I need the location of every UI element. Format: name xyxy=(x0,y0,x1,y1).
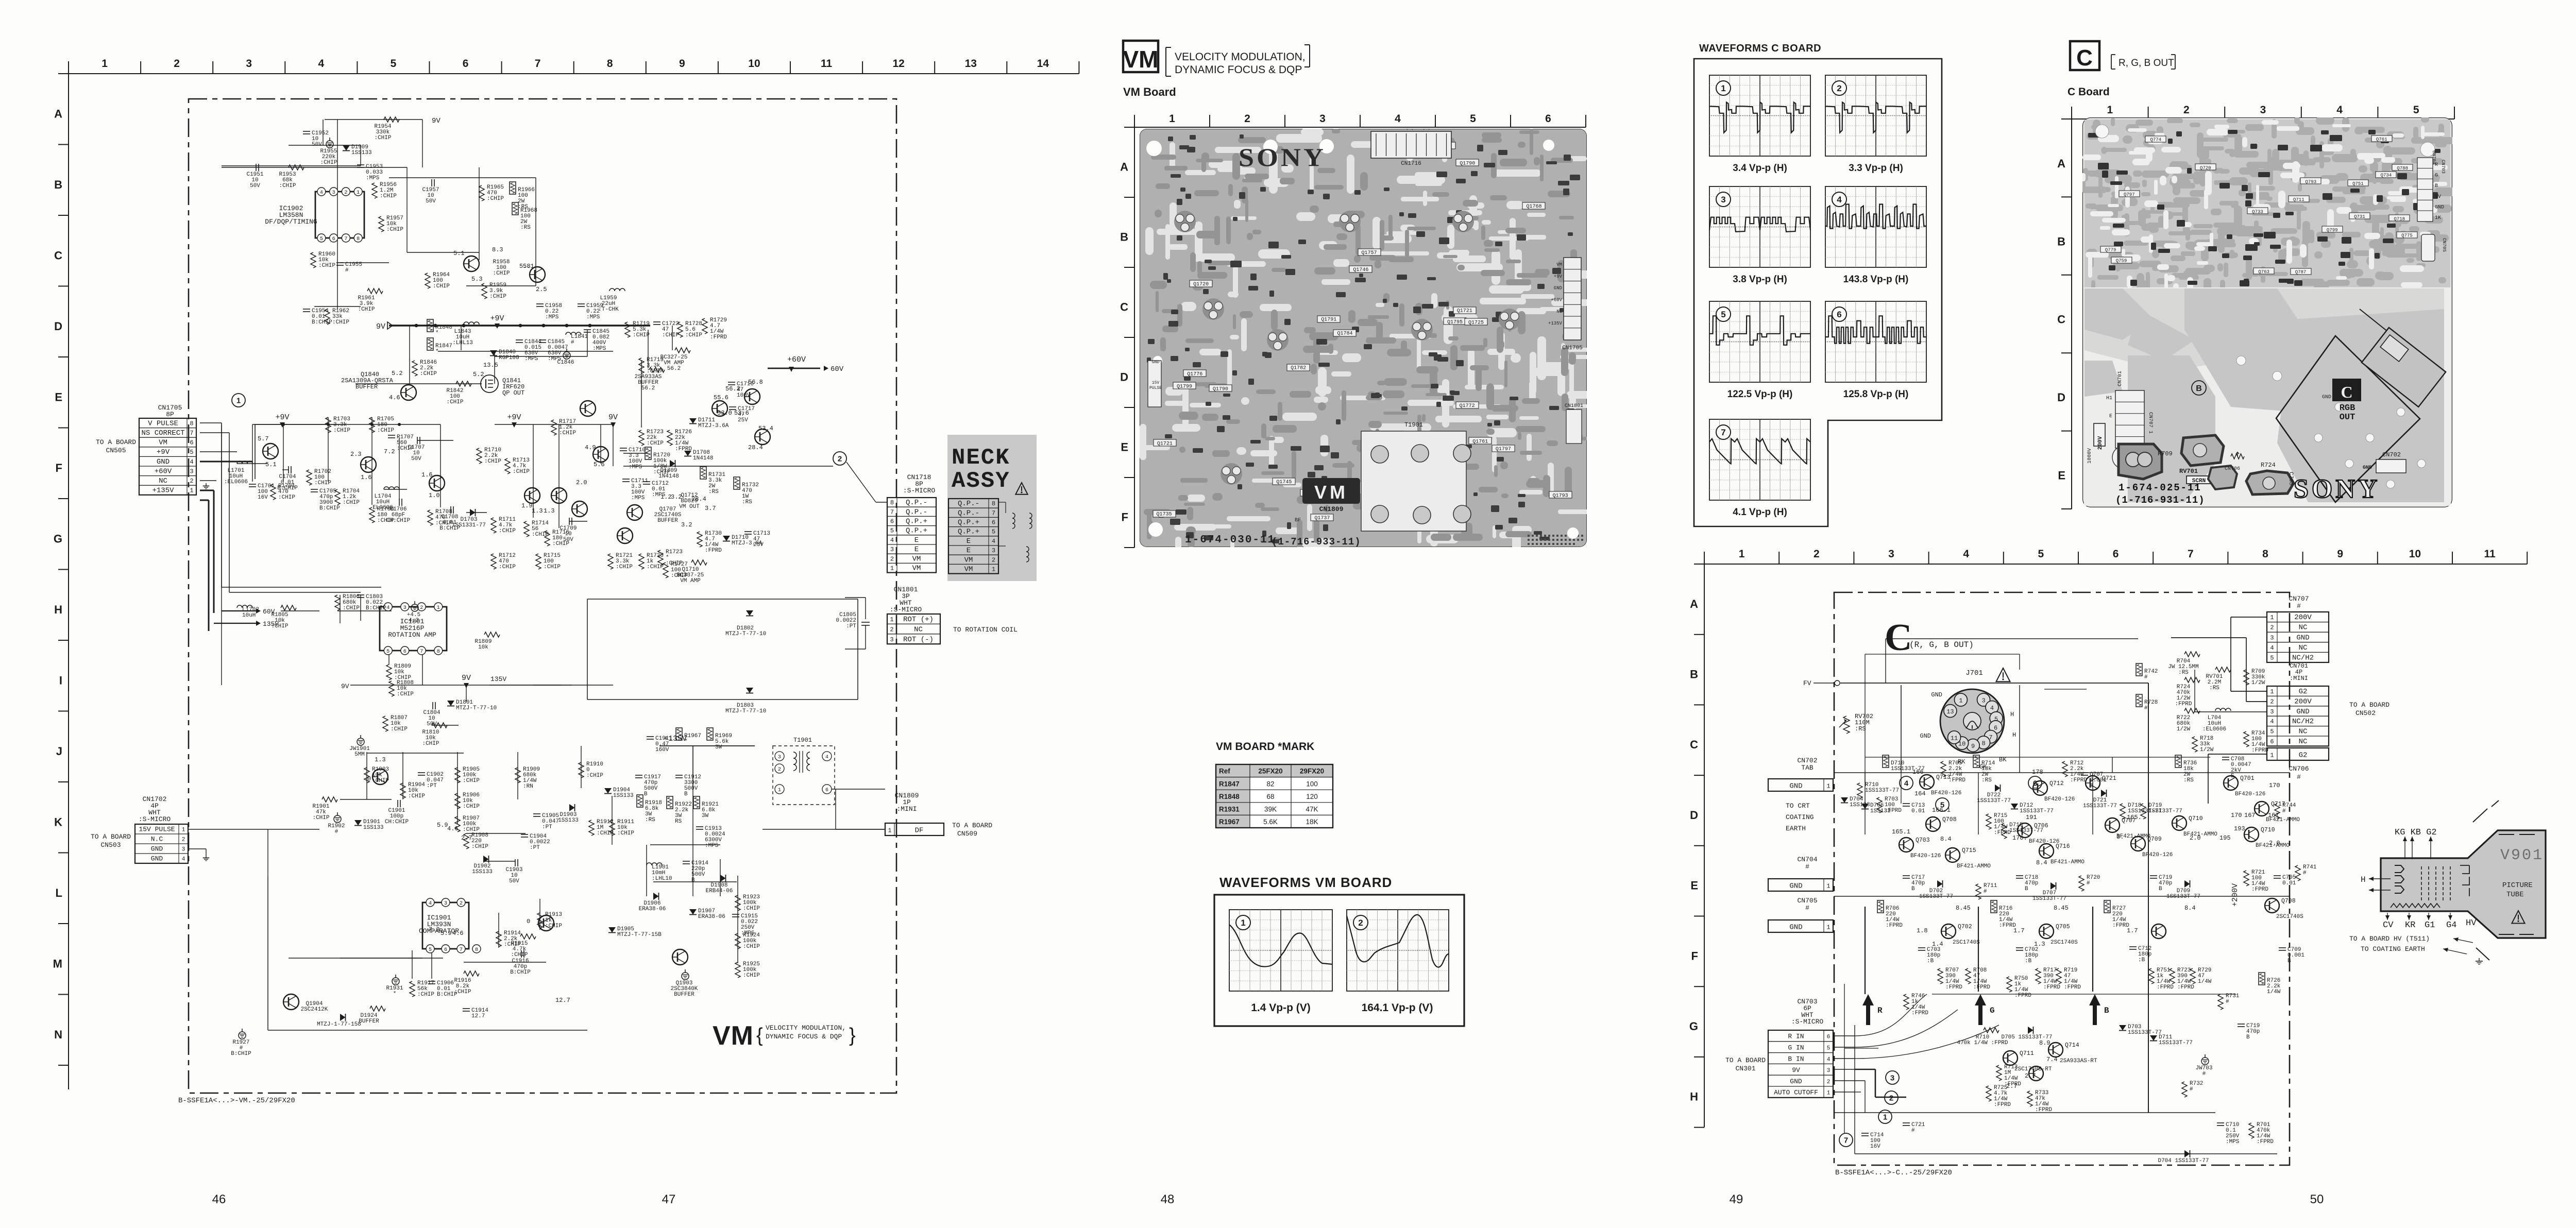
svg-text:191: 191 xyxy=(2026,814,2037,821)
svg-text:9: 9 xyxy=(1971,743,1975,750)
svg-text:170: 170 xyxy=(2231,812,2242,819)
diode D1905 xyxy=(608,927,616,933)
diode D1803 xyxy=(746,688,753,693)
resistor R704 xyxy=(2184,652,2200,657)
wire xyxy=(1704,564,1705,1128)
svg-text:B: B xyxy=(2196,384,2202,393)
wire xyxy=(457,752,458,824)
svg-text:5MM: 5MM xyxy=(354,752,365,758)
svg-text:12.7: 12.7 xyxy=(471,1013,485,1019)
svg-text:H: H xyxy=(2012,731,2016,739)
svg-text:F: F xyxy=(1691,949,1698,962)
svg-text:4.6: 4.6 xyxy=(452,930,464,937)
svg-text:HV: HV xyxy=(2466,918,2477,928)
svg-text::CHIP: :CHIP xyxy=(489,294,506,300)
resistor R1847 xyxy=(427,338,433,350)
svg-text:R IN: R IN xyxy=(1788,1033,1804,1041)
diode D1906 xyxy=(653,893,659,900)
svg-text:8.3: 8.3 xyxy=(492,246,503,253)
svg-text:Q710: Q710 xyxy=(2261,827,2275,833)
svg-text::CHIP: :CHIP xyxy=(408,793,425,799)
svg-text:0.01: 0.01 xyxy=(2282,880,2296,886)
svg-text:4: 4 xyxy=(386,605,389,611)
svg-text:TO A BOARD: TO A BOARD xyxy=(91,833,131,841)
diode D1904 xyxy=(604,788,612,794)
resistor R1923 xyxy=(735,895,740,911)
svg-text:#: # xyxy=(2297,602,2301,610)
svg-text:Q710: Q710 xyxy=(2189,815,2203,822)
svg-text:6: 6 xyxy=(2113,548,2119,560)
svg-text:E: E xyxy=(1690,879,1698,892)
capacitor C719 xyxy=(2150,875,2157,876)
svg-text:13: 13 xyxy=(1946,708,1954,715)
wire xyxy=(422,120,423,167)
svg-text:BUFFER: BUFFER xyxy=(359,1018,379,1025)
resistor R1808 xyxy=(389,681,394,696)
svg-text:11: 11 xyxy=(1951,735,1958,742)
capacitor C1955 xyxy=(336,262,344,263)
svg-text::EL0606: :EL0606 xyxy=(224,479,248,485)
resistor R729 xyxy=(2190,968,2195,984)
svg-text:VM: VM xyxy=(1314,482,1348,503)
svg-text:+60V: +60V xyxy=(155,467,172,475)
RV702 pot xyxy=(1843,716,1850,734)
svg-text:C: C xyxy=(2076,45,2093,71)
oscilloscope graticule xyxy=(1709,75,1810,156)
svg-text:1: 1 xyxy=(2270,688,2274,695)
svg-text::FPRD: :FPRD xyxy=(2251,886,2268,893)
svg-text:A: A xyxy=(1120,160,1128,173)
svg-text:1/4W: 1/4W xyxy=(2198,979,2212,985)
resistor R1720 xyxy=(645,447,651,459)
svg-text:3.2: 3.2 xyxy=(681,521,692,528)
svg-text:1.0: 1.0 xyxy=(429,492,440,499)
resistor R751 xyxy=(2149,968,2154,984)
svg-text::MINI: :MINI xyxy=(896,805,917,813)
svg-text:8P: 8P xyxy=(166,411,174,418)
wire xyxy=(466,285,536,286)
svg-text:8: 8 xyxy=(607,58,613,70)
svg-text:G2: G2 xyxy=(2299,751,2308,759)
resistor R705 xyxy=(1941,761,1946,777)
svg-text:1SS133: 1SS133 xyxy=(472,869,493,875)
wire +9V D bus xyxy=(389,325,650,326)
resistor R1967 xyxy=(676,728,682,740)
svg-text:178: 178 xyxy=(2032,769,2043,776)
resistor R1702 xyxy=(307,470,312,485)
svg-text:8: 8 xyxy=(190,420,193,427)
svg-text:Q787: Q787 xyxy=(2295,270,2307,275)
svg-text:7: 7 xyxy=(420,649,423,655)
svg-text::PT: :PT xyxy=(530,845,540,851)
svg-text:GND: GND xyxy=(1920,732,1931,740)
wire xyxy=(498,913,499,948)
svg-text::B: :B xyxy=(2025,958,2032,964)
svg-text:5.6K: 5.6K xyxy=(1263,818,1278,826)
wire xyxy=(237,463,268,464)
svg-text:1: 1 xyxy=(890,565,894,572)
svg-text::FPRD: :FPRD xyxy=(1948,777,1965,783)
capacitor C710 xyxy=(2217,1122,2224,1123)
diode MTZJ-1-77-158 xyxy=(340,1014,346,1021)
resistor R1904 xyxy=(400,783,405,798)
wire xyxy=(323,120,324,145)
resistor R1711 xyxy=(491,518,496,533)
svg-text:Q1721: Q1721 xyxy=(1457,309,1472,314)
resistor R1731 xyxy=(700,467,706,479)
svg-text:NC: NC xyxy=(2299,728,2308,736)
svg-text:166: 166 xyxy=(1912,769,1924,776)
svg-text::MPS: :MPS xyxy=(631,495,645,501)
svg-text::CHIP: :CHIP xyxy=(471,844,488,850)
svg-text:KR: KR xyxy=(2405,920,2415,930)
svg-text:TO A BOARD: TO A BOARD xyxy=(952,822,992,829)
svg-text:GND: GND xyxy=(151,855,163,863)
resistor R1953 xyxy=(289,165,304,170)
svg-text:MTZJ-1-77-158: MTZJ-1-77-158 xyxy=(317,1021,361,1028)
resistor D715 xyxy=(2002,823,2007,839)
svg-text::CHIP: :CHIP xyxy=(616,564,633,570)
svg-text:VM AMP: VM AMP xyxy=(680,578,701,584)
svg-text:D704 1SS133T-77: D704 1SS133T-77 xyxy=(2158,1158,2209,1164)
resistor R1705 xyxy=(369,417,375,433)
svg-text:B: B xyxy=(2057,235,2065,248)
svg-text:R, G, B OUT: R, G, B OUT xyxy=(2119,58,2174,69)
svg-text:1K: 1K xyxy=(2435,215,2441,221)
svg-text:GND: GND xyxy=(1790,1078,1802,1085)
svg-text:NC: NC xyxy=(159,477,167,485)
resistor R710 xyxy=(1857,783,1862,798)
svg-text:F: F xyxy=(56,462,62,474)
resistor Q1710 xyxy=(691,560,707,565)
ground C1846 xyxy=(566,349,567,352)
svg-text:1SS133T-77: 1SS133T-77 xyxy=(2083,803,2117,809)
svg-text:18K: 18K xyxy=(1306,818,1318,826)
wire xyxy=(762,829,885,830)
svg-text::CHIP: :CHIP xyxy=(743,973,760,979)
svg-text:B:CHIP: B:CHIP xyxy=(277,485,298,491)
capacitor C721 xyxy=(1903,1122,1910,1123)
diode D712 xyxy=(2011,804,2018,809)
callout circles xyxy=(1886,1071,1899,1084)
oscilloscope graticule xyxy=(1825,186,1926,267)
wire xyxy=(483,861,515,862)
svg-text:ASSY: ASSY xyxy=(952,468,1010,494)
svg-text:NC: NC xyxy=(2299,644,2308,652)
svg-text:BF420-126: BF420-126 xyxy=(1910,853,1941,859)
capacitor C712 xyxy=(2129,946,2137,947)
transistor Q707 xyxy=(2105,818,2120,832)
wire xyxy=(337,120,338,309)
svg-text:50V: 50V xyxy=(312,142,322,148)
wire xyxy=(494,350,495,384)
svg-text:50V: 50V xyxy=(509,878,519,884)
svg-text:3: 3 xyxy=(246,58,252,70)
resistor R1842 xyxy=(456,381,471,386)
svg-text:1SS133T-77: 1SS133T-77 xyxy=(1977,798,2011,804)
svg-text:8.4: 8.4 xyxy=(2036,859,2047,866)
ground xyxy=(206,855,207,858)
svg-text:1: 1 xyxy=(1826,924,1830,931)
svg-text:6: 6 xyxy=(444,947,447,953)
svg-text:PICTURE: PICTURE xyxy=(2502,881,2533,890)
svg-text:Q703: Q703 xyxy=(1916,837,1930,844)
svg-text:VM: VM xyxy=(713,1021,754,1051)
svg-text:MTZJ-T-77-10: MTZJ-T-77-10 xyxy=(725,708,766,714)
svg-text:Q720: Q720 xyxy=(2200,165,2211,170)
svg-text:#: # xyxy=(1805,904,1809,912)
svg-text:Q793: Q793 xyxy=(2306,179,2317,184)
svg-text:2.0: 2.0 xyxy=(2269,840,2280,847)
svg-text:Q705: Q705 xyxy=(2056,924,2070,930)
svg-text:WAVEFORMS C BOARD: WAVEFORMS C BOARD xyxy=(1699,43,1821,54)
svg-text:RV701: RV701 xyxy=(2179,468,2198,475)
resistor R1903 xyxy=(364,767,369,783)
svg-text:DF/DQP/TIMING: DF/DQP/TIMING xyxy=(265,218,317,226)
svg-text:1: 1 xyxy=(437,605,440,611)
svg-text:28.4: 28.4 xyxy=(748,444,763,451)
svg-text:3: 3 xyxy=(444,901,447,907)
wire xyxy=(464,962,546,963)
VM BOARD *MARK table xyxy=(1216,764,1333,828)
resistor R1810 xyxy=(432,723,447,728)
diode D704 xyxy=(1841,797,1848,803)
wire xyxy=(399,438,400,500)
svg-text:10: 10 xyxy=(2409,548,2421,560)
svg-text:1.2: 1.2 xyxy=(660,493,672,501)
transistor Q1840 xyxy=(401,385,416,400)
svg-text::CHIP: :CHIP xyxy=(662,332,679,338)
svg-text:CN702: CN702 xyxy=(1797,757,1817,764)
svg-text:4: 4 xyxy=(1827,1056,1831,1063)
svg-text:ERB44-06: ERB44-06 xyxy=(706,888,733,894)
capacitor C1712 xyxy=(643,481,650,482)
resistor R1911 xyxy=(609,820,615,835)
svg-text:3.2: 3.2 xyxy=(671,493,682,501)
svg-text:B: B xyxy=(2159,886,2162,892)
svg-text:6: 6 xyxy=(1827,1034,1831,1041)
svg-text::FPRD: :FPRD xyxy=(1911,1010,1928,1016)
svg-text::CHIP: :CHIP xyxy=(417,992,434,998)
svg-text:8: 8 xyxy=(992,500,995,507)
svg-text::CHIP: :CHIP xyxy=(386,227,403,233)
svg-text::CHIP: :CHIP xyxy=(487,196,504,202)
svg-text:CN704: CN704 xyxy=(1797,856,1817,863)
svg-text::RS: :RS xyxy=(1855,725,1866,732)
svg-text:CN702: CN702 xyxy=(2382,451,2401,458)
svg-text:(R, G, B OUT): (R, G, B OUT) xyxy=(1909,640,1974,650)
wire xyxy=(384,489,407,490)
svg-text:Q1761: Q1761 xyxy=(1472,439,1488,445)
svg-text:B: B xyxy=(2104,1006,2109,1015)
svg-text:VM: VM xyxy=(912,555,921,563)
svg-text:4: 4 xyxy=(2336,104,2343,116)
resistor R1721 xyxy=(608,554,613,569)
svg-text:5: 5 xyxy=(320,236,323,242)
svg-text::RS: :RS xyxy=(742,499,752,505)
transistor Q1709 xyxy=(744,389,760,404)
svg-text:2: 2 xyxy=(190,477,193,485)
resistor R1708 xyxy=(428,510,433,525)
svg-text:2SC1740S: 2SC1740S xyxy=(2050,940,2078,946)
svg-text:Q1746: Q1746 xyxy=(1353,267,1368,273)
svg-text:#: # xyxy=(1984,889,1987,895)
svg-text:VELOCITY MODULATION,: VELOCITY MODULATION, xyxy=(766,1024,846,1032)
svg-text:6: 6 xyxy=(1837,310,1841,319)
svg-text:CV: CV xyxy=(2383,920,2394,930)
svg-text:2.7: 2.7 xyxy=(2025,1072,2036,1080)
svg-text:1: 1 xyxy=(2270,614,2274,621)
svg-text:3.3 Vp-p (H): 3.3 Vp-p (H) xyxy=(1849,163,1903,174)
svg-text:B:CHIP: B:CHIP xyxy=(231,1051,251,1057)
svg-text:5.2: 5.2 xyxy=(392,370,403,377)
svg-text:Q774: Q774 xyxy=(2150,138,2161,143)
resistor R1954 xyxy=(384,117,399,122)
capacitor C1914 xyxy=(463,1008,470,1009)
svg-text:R1848: R1848 xyxy=(1219,793,1240,800)
svg-text:1: 1 xyxy=(357,190,360,196)
svg-text:Q1795: Q1795 xyxy=(1447,319,1463,325)
wire xyxy=(422,651,423,685)
wire xyxy=(539,899,540,930)
capacitor C707 xyxy=(2081,772,2088,773)
svg-text:1: 1 xyxy=(888,827,891,834)
svg-text:2SC2412K: 2SC2412K xyxy=(301,1007,328,1013)
svg-text::CHIP: :CHIP xyxy=(358,306,375,313)
resistor R1728 xyxy=(677,322,683,337)
resistor R710 xyxy=(1984,1028,1999,1033)
wire E-F bus xyxy=(255,424,440,425)
svg-text:5: 5 xyxy=(2038,548,2044,560)
svg-text:200V: 200V xyxy=(2294,613,2312,622)
svg-text:5.3: 5.3 xyxy=(471,276,483,283)
wire xyxy=(402,752,403,799)
resistor R1807 xyxy=(383,716,388,731)
svg-text:1.3: 1.3 xyxy=(544,507,555,515)
wire xyxy=(533,424,534,518)
svg-text:2: 2 xyxy=(838,454,842,463)
svg-text:2: 2 xyxy=(2183,104,2190,116)
diode D1801 xyxy=(447,701,454,706)
wire left feeds xyxy=(221,587,222,685)
wire xyxy=(440,424,441,507)
svg-text:4: 4 xyxy=(1990,705,1994,712)
svg-text:B:CHIP: B:CHIP xyxy=(312,319,332,326)
svg-text:2: 2 xyxy=(460,901,463,907)
resistor R1925 xyxy=(735,962,740,978)
svg-text:1.3: 1.3 xyxy=(2034,941,2045,948)
svg-text:R709: R709 xyxy=(2158,450,2173,457)
svg-text:CN509: CN509 xyxy=(957,830,977,838)
svg-text:193: 193 xyxy=(2234,825,2245,832)
svg-text:J: J xyxy=(56,745,62,758)
svg-text:7.3: 7.3 xyxy=(429,926,440,933)
wire xyxy=(69,73,1079,74)
svg-text:3: 3 xyxy=(190,468,193,475)
svg-text::CHIP: :CHIP xyxy=(493,270,510,277)
diode D1908 xyxy=(720,875,726,882)
svg-text:5: 5 xyxy=(386,649,389,655)
wire xyxy=(558,424,560,528)
svg-text:GND: GND xyxy=(1789,882,1802,890)
svg-text:48: 48 xyxy=(1161,1192,1175,1206)
svg-text::CHIP: :CHIP xyxy=(377,428,394,434)
svg-text:QP OUT: QP OUT xyxy=(502,389,524,397)
resistor R1960 xyxy=(311,252,316,268)
svg-text:H: H xyxy=(2361,875,2366,884)
resistor R736 xyxy=(2175,755,2181,767)
svg-text:B: B xyxy=(1690,668,1698,680)
VM logo bracket text xyxy=(1165,47,1166,76)
svg-text:C708: C708 xyxy=(2287,472,2294,485)
svg-text:5: 5 xyxy=(190,449,193,456)
resistor R1717 xyxy=(551,420,556,435)
resistor R1959 xyxy=(482,283,487,299)
resistor R712 xyxy=(2062,761,2067,777)
svg-text:3.4 Vp-p (H): 3.4 Vp-p (H) xyxy=(1733,163,1787,174)
wire xyxy=(360,145,361,166)
resistor D718 xyxy=(2120,804,2125,819)
svg-text:4: 4 xyxy=(890,537,894,544)
svg-text:0: 0 xyxy=(367,775,371,782)
wire 135V K xyxy=(489,685,613,686)
svg-text:2: 2 xyxy=(174,58,180,70)
svg-text:200V: 200V xyxy=(2294,697,2312,706)
svg-text:Q1745: Q1745 xyxy=(1276,480,1292,485)
svg-text:9V: 9V xyxy=(432,117,440,125)
svg-text::PT: :PT xyxy=(427,783,437,789)
svg-text:2SC1740S: 2SC1740S xyxy=(1953,940,1980,946)
svg-text:100: 100 xyxy=(1306,780,1318,788)
resistor R1966 xyxy=(510,182,516,194)
svg-text:164: 164 xyxy=(1914,790,1926,797)
svg-text::CHIP: :CHIP xyxy=(743,906,760,912)
svg-text:4: 4 xyxy=(1904,779,1909,788)
svg-text:CN707 1: CN707 1 xyxy=(2147,412,2153,434)
diode D1708 xyxy=(684,451,691,456)
resistor R1957 xyxy=(379,216,384,232)
capacitor C1845 xyxy=(539,339,546,340)
svg-text:9: 9 xyxy=(679,58,685,70)
capacitor C1951 xyxy=(256,164,257,171)
svg-text:R: R xyxy=(1877,1006,1883,1015)
ground Q1903 xyxy=(685,969,686,973)
svg-text:E: E xyxy=(2109,414,2112,419)
svg-text:1/4W: 1/4W xyxy=(2267,989,2281,995)
resistor R1730 xyxy=(697,532,702,547)
svg-text:5: 5 xyxy=(1721,310,1725,319)
resistor R1719 xyxy=(639,358,644,373)
svg-text:0: 0 xyxy=(527,918,530,925)
transistor Q710 xyxy=(2244,827,2259,842)
svg-text:Q761: Q761 xyxy=(2376,137,2387,142)
svg-text:1.3: 1.3 xyxy=(375,756,386,763)
resistor D710 xyxy=(1883,755,1889,767)
resistor R722 xyxy=(2184,708,2200,713)
svg-text:Q1737: Q1737 xyxy=(1314,516,1330,521)
svg-text:BF421-AMMO: BF421-AMMO xyxy=(1957,863,1991,869)
wire xyxy=(366,752,367,799)
svg-text:1/2W: 1/2W xyxy=(2251,680,2265,686)
svg-text:4: 4 xyxy=(429,901,432,907)
svg-text:1: 1 xyxy=(190,487,193,494)
svg-text:3: 3 xyxy=(2270,634,2274,641)
svg-text::FPRD: :FPRD xyxy=(2257,1139,2274,1145)
svg-text:*: * xyxy=(435,349,439,355)
svg-text::LHL10: :LHL10 xyxy=(652,876,672,882)
svg-text::PT: :PT xyxy=(542,824,552,830)
capacitor C1959 xyxy=(578,303,585,304)
